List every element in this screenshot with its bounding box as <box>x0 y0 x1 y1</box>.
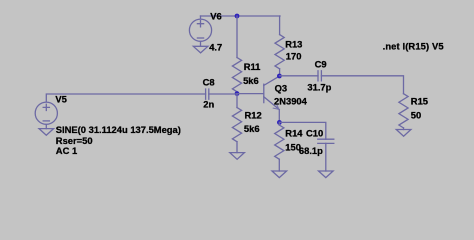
ground under R12 <box>230 153 245 160</box>
wire base <box>237 93 263 95</box>
svg-text:C9: C9 <box>315 59 327 70</box>
svg-text:5k6: 5k6 <box>243 75 259 86</box>
svg-text:68.1p: 68.1p <box>299 145 323 156</box>
svg-text:31.7p: 31.7p <box>307 82 331 93</box>
svg-text:.net I(R15) V5: .net I(R15) V5 <box>383 40 444 51</box>
ground under V5 <box>39 129 54 136</box>
ground under C10 <box>319 171 334 178</box>
svg-text:R15: R15 <box>411 96 428 107</box>
svg-text:R14: R14 <box>285 128 303 139</box>
wire R12 branch <box>236 94 238 108</box>
svg-text:AC 1: AC 1 <box>56 145 77 156</box>
svg-text:V6: V6 <box>210 10 221 21</box>
wire top rail V6 to R13 <box>201 15 281 17</box>
node collector <box>277 74 282 79</box>
wire C8 to base node <box>209 93 237 95</box>
voltage source V6 <box>189 19 211 46</box>
svg-text:SINE(0 31.1124u 137.5Mega): SINE(0 31.1124u 137.5Mega) <box>56 124 181 135</box>
wire C10 bottom <box>325 143 327 171</box>
resistor R14 <box>275 125 284 159</box>
wire V6 stem <box>200 16 202 19</box>
wire emitter to C10 <box>279 122 325 139</box>
wire V5 to C8 <box>46 94 205 102</box>
node junction top rail <box>235 14 240 19</box>
node emitter <box>277 120 282 125</box>
svg-text:2n: 2n <box>203 98 214 109</box>
svg-text:R11: R11 <box>244 61 261 72</box>
svg-text:50: 50 <box>411 109 421 120</box>
node base junction <box>235 91 240 96</box>
wire R13 bottom <box>279 69 281 76</box>
resistor R13 <box>275 35 284 69</box>
capacitor C10 <box>318 139 334 143</box>
wire R11 bottom <box>236 92 238 94</box>
wire collector to C9 <box>279 75 318 77</box>
svg-text:R12: R12 <box>245 110 262 121</box>
svg-text:4.7: 4.7 <box>209 42 222 53</box>
capacitor C9 <box>318 71 321 81</box>
voltage source V5 <box>35 102 57 129</box>
wire C9 to R15 corner <box>321 76 403 94</box>
resistor R15 <box>399 94 408 128</box>
ground under R15 <box>396 130 411 137</box>
wire R14 bottom <box>278 159 280 171</box>
svg-text:2N3904: 2N3904 <box>274 96 308 107</box>
wire R15 bottom <box>403 128 405 130</box>
svg-text:C8: C8 <box>203 76 215 87</box>
svg-text:Q3: Q3 <box>275 83 288 94</box>
transistor Q3 <box>264 76 280 122</box>
svg-text:5k6: 5k6 <box>244 123 260 134</box>
svg-text:170: 170 <box>286 51 302 62</box>
resistor R12 <box>232 108 241 142</box>
wire R12 bottom <box>236 142 238 153</box>
wire R13 branch top <box>279 16 281 35</box>
svg-text:R13: R13 <box>285 39 302 50</box>
ground under R14 <box>272 171 287 178</box>
svg-text:C10: C10 <box>306 128 323 139</box>
resistor R11 <box>232 58 241 92</box>
capacitor C8 <box>206 89 209 99</box>
wire R11 branch top <box>236 16 238 58</box>
svg-text:V5: V5 <box>55 94 66 105</box>
wire emitter to R14 <box>278 122 280 125</box>
ground under V6 <box>193 46 208 53</box>
